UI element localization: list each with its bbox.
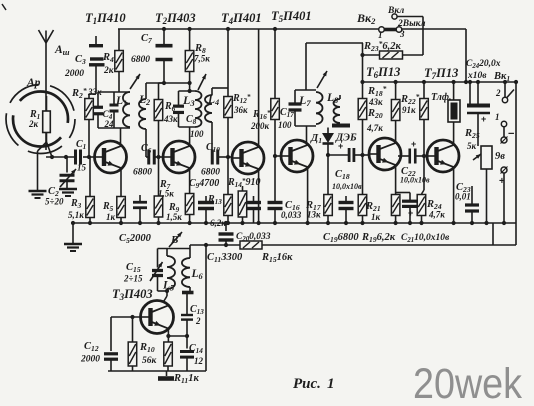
svg-text:200к: 200к [250, 121, 270, 131]
svg-text:Т2П403: Т2П403 [155, 11, 196, 26]
svg-text:6800: 6800 [133, 168, 152, 178]
svg-text:Т4П401: Т4П401 [221, 11, 262, 26]
svg-text:+: + [411, 139, 416, 149]
svg-text:2÷15: 2÷15 [123, 274, 143, 284]
svg-text:R23*6,2к: R23*6,2к [363, 39, 402, 53]
svg-text:0,01: 0,01 [455, 192, 471, 202]
svg-text:2к: 2к [28, 119, 39, 129]
svg-text:43к: 43к [163, 114, 178, 124]
svg-text:5к: 5к [467, 141, 477, 151]
svg-text:Тлф.: Тлф. [431, 92, 452, 103]
svg-text:6,2к: 6,2к [210, 218, 226, 228]
svg-text:Т1П410: Т1П410 [85, 11, 126, 26]
svg-text:7,5к: 7,5к [194, 54, 210, 64]
svg-text:+: + [481, 114, 486, 124]
svg-text:6800: 6800 [201, 168, 220, 178]
svg-text:+: + [408, 208, 413, 218]
svg-text:10,0х10в: 10,0х10в [400, 176, 430, 185]
svg-text:−: − [508, 128, 514, 140]
svg-text:43к: 43к [368, 97, 383, 107]
svg-text:С113300: С113300 [207, 252, 243, 264]
svg-text:36к: 36к [233, 105, 248, 115]
svg-text:4,7к: 4,7к [366, 123, 383, 133]
svg-text:Вкл: Вкл [387, 6, 404, 16]
svg-text:1,5к: 1,5к [166, 212, 182, 222]
svg-text:13к: 13к [307, 210, 321, 220]
svg-text:12: 12 [194, 356, 204, 366]
svg-text:1,5к: 1,5к [158, 189, 174, 199]
svg-text:6800: 6800 [131, 55, 150, 65]
svg-text:24: 24 [104, 119, 115, 129]
svg-text:100: 100 [278, 120, 292, 130]
svg-text:2Выкл: 2Выкл [397, 19, 426, 29]
svg-text:5÷20: 5÷20 [45, 197, 64, 207]
svg-text:2000: 2000 [64, 69, 84, 79]
svg-text:2000: 2000 [80, 355, 100, 365]
svg-text:91к: 91к [402, 105, 416, 115]
svg-text:С200,033: С200,033 [236, 232, 271, 243]
svg-text:Т6П13: Т6П13 [366, 65, 400, 80]
svg-text:33к: 33к [87, 87, 102, 97]
svg-text:Т7П13: Т7П13 [424, 66, 458, 81]
svg-text:R1516к: R1516к [261, 252, 293, 264]
svg-text:5,1к: 5,1к [68, 210, 84, 220]
svg-text:х10в: х10в [467, 71, 487, 81]
svg-text:Т3П403: Т3П403 [112, 287, 153, 302]
svg-text:100: 100 [190, 129, 204, 139]
svg-text:2: 2 [195, 316, 201, 326]
svg-text:1к: 1к [106, 212, 116, 222]
svg-text:3: 3 [399, 29, 405, 39]
svg-text:С196800: С196800 [323, 232, 359, 244]
svg-text:4,7к: 4,7к [428, 210, 445, 220]
svg-text:0,033: 0,033 [281, 210, 302, 220]
svg-text:1: 1 [495, 112, 500, 122]
svg-text:1к: 1к [371, 212, 381, 222]
svg-text:2к: 2к [103, 66, 115, 76]
svg-text:Ар: Ар [26, 77, 41, 89]
svg-text:+: + [499, 176, 505, 187]
svg-text:15: 15 [77, 163, 87, 173]
svg-text:1: 1 [327, 376, 335, 392]
svg-text:56к: 56к [142, 356, 158, 366]
svg-text:Рис.: Рис. [293, 376, 321, 392]
svg-text:С2420,0х: С2420,0х [466, 59, 501, 70]
svg-text:20wek: 20wek [413, 360, 522, 406]
svg-text:10,0х10в: 10,0х10в [332, 182, 362, 191]
svg-text:2: 2 [495, 88, 501, 98]
svg-text:9в: 9в [495, 151, 505, 162]
svg-text:R196,2к: R196,2к [361, 232, 396, 244]
svg-text:Т5П401: Т5П401 [271, 9, 312, 24]
svg-text:С94700: С94700 [189, 178, 219, 190]
svg-text:ДЭБ: ДЭБ [335, 133, 357, 144]
svg-text:С52000: С52000 [119, 233, 152, 245]
